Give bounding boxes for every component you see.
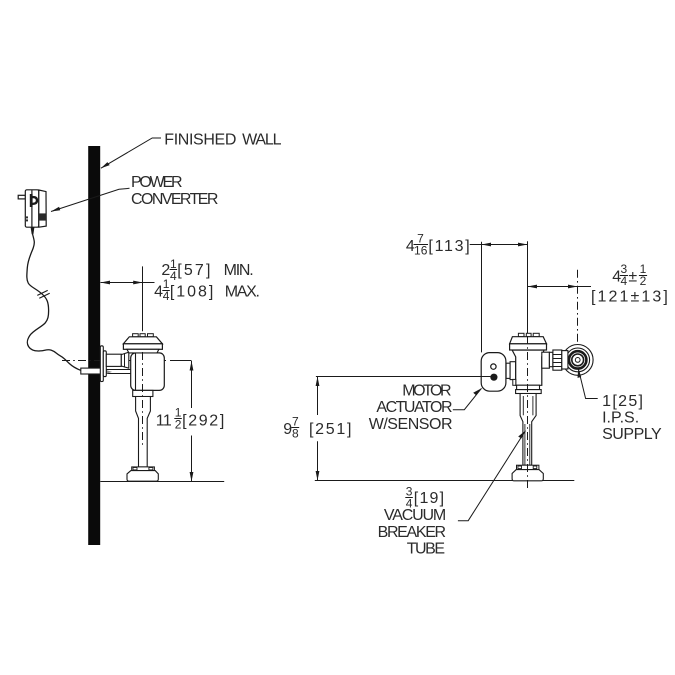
svg-text:SUPPLY: SUPPLY [602,426,662,443]
supply centerline dash-dot [577,270,579,375]
svg-text:[251]: [251] [309,421,352,438]
svg-text:CONVERTER: CONVERTER [131,191,218,208]
svg-text:ACTUATOR: ACTUATOR [376,399,452,416]
leader ips supply [578,369,597,399]
cable connector through wall [81,368,101,374]
dimension 9-7/8 [251] vertical [317,377,319,416]
svg-text:POWER: POWER [131,174,183,191]
svg-text:16: 16 [414,244,428,258]
svg-text:[19]: [19] [414,490,444,507]
svg-text:W/SENSOR: W/SENSOR [369,416,453,433]
right view extension line to sensor [316,376,490,378]
right slip nut [517,385,540,389]
supply stop circles [562,345,593,376]
svg-text:BREAKER: BREAKER [378,524,447,541]
leader power converter [51,188,130,211]
right valve cap band [510,344,547,350]
left valve slip nut [133,390,153,396]
motor actuator [481,353,506,392]
left spud flange ring [132,467,155,471]
right spud flange base [512,470,543,481]
svg-text:4: 4 [154,283,163,300]
right view: extension line for actuator face [481,242,483,353]
wire: power cord [27,234,81,370]
supply stop nut [553,350,562,370]
svg-text:FINISHED: FINISHED [164,132,236,149]
right valve cap screws [518,333,539,336]
right valve arm to stop [542,352,550,368]
svg-text:I.P.S.: I.P.S. [602,409,639,426]
left fixture line [100,481,224,483]
right valve ledge [513,379,516,385]
finished wall [88,146,100,545]
right spud flange ring [517,465,539,469]
svg-text:9: 9 [283,421,292,438]
supply stop washer plate [562,351,568,369]
left valve supply pipe [106,354,121,366]
right valve dome [510,337,547,344]
right valve centerline dash-dot [527,336,529,489]
svg-text:±: ± [628,269,637,286]
power converter [18,190,46,234]
left valve cap screws [133,334,154,337]
right fixture line [315,480,575,482]
left valve dome [123,337,162,344]
svg-text:VACUUM: VACUUM [384,507,446,524]
wire break symbol [37,290,47,295]
right valve body [512,350,544,385]
dimension 4-3/4 +/- 1/2 [121 +/- 13] [528,286,592,288]
wire: centerline extension to dimension [170,360,192,362]
svg-text:1[25]: 1[25] [602,393,643,410]
wire: supply centerline (left view) [62,360,167,362]
svg-text:2: 2 [175,417,182,431]
svg-text:4: 4 [170,269,177,283]
dimension 2-1/4 min / 4-1/4 max [101,282,155,284]
left valve body [131,353,165,391]
leader finished wall [101,138,161,168]
actuator coupling [506,363,510,378]
svg-text:[292]: [292] [182,412,224,429]
left valve tube [136,397,151,467]
left valve centerline vertical (extension) [142,266,144,331]
left valve neck [127,349,159,353]
svg-text:4: 4 [163,289,170,303]
leader motor actuator [453,388,482,409]
svg-text:WALL: WALL [242,132,281,149]
vacuum breaker tube [520,394,536,466]
svg-text:[57]: [57] [177,262,210,279]
left spud flange base [127,471,158,482]
svg-text:[121±13]: [121±13] [591,289,668,306]
svg-text:8: 8 [292,427,299,441]
svg-text:[113]: [113] [428,238,469,255]
svg-text:MOTOR: MOTOR [402,382,451,399]
svg-text:4: 4 [621,274,628,288]
left valve centerline dash-dot in tube [142,352,144,448]
svg-text:MIN.: MIN. [224,262,254,279]
dimension 4-7/16 [113] [470,244,528,246]
left valve escutcheon [100,346,103,382]
left valve coupling nut [121,352,129,368]
right view: valve centerline upper solid [527,241,529,333]
dimension 11-1/2 [292] vertical [191,361,193,408]
svg-text:MAX.: MAX. [225,283,260,300]
svg-text:[108]: [108] [170,283,213,300]
svg-text:TUBE: TUBE [407,541,445,558]
left valve cap band [123,344,162,350]
svg-text:2: 2 [640,274,647,288]
leader vacuum breaker [458,431,526,521]
svg-text:11: 11 [156,412,172,429]
